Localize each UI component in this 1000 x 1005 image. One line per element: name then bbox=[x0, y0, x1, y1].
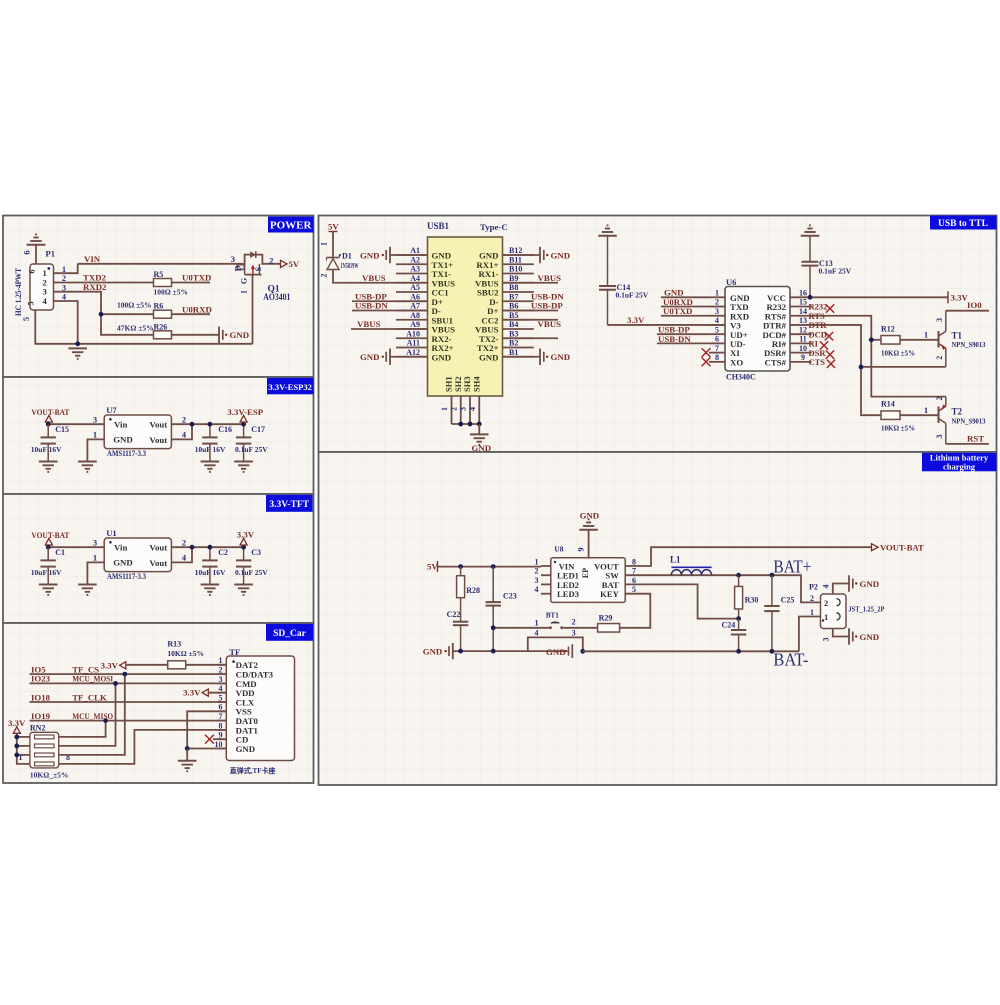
wire 3.3V to R13 bbox=[126, 664, 169, 666]
wire charger ground rail right bbox=[583, 650, 799, 652]
wire P2 pin4 to GND bbox=[833, 584, 849, 595]
net label IO0 bbox=[967, 300, 982, 310]
net label U0RXD bbox=[663, 297, 693, 307]
net label GND (U6) bbox=[664, 288, 684, 298]
svg-text:1: 1 bbox=[219, 656, 223, 665]
USB1 inside left pin names bbox=[432, 251, 456, 363]
svg-text:A1: A1 bbox=[410, 246, 420, 255]
svg-text:2: 2 bbox=[319, 274, 328, 278]
svg-text:S: S bbox=[254, 266, 263, 271]
resistor R29 bbox=[598, 624, 620, 633]
resistor R30 (vertical) bbox=[735, 575, 743, 618]
wire USB-DN (U6 pin6) bbox=[657, 342, 709, 344]
TF subtitle (chinese) bbox=[230, 766, 276, 775]
U7 pin 1 label bbox=[93, 430, 97, 440]
wire T2 collector to RST bbox=[946, 443, 989, 445]
wire input rail bbox=[48, 546, 87, 548]
U6 inside left pin names bbox=[730, 293, 750, 368]
svg-text:10KΩ_±5%: 10KΩ_±5% bbox=[30, 770, 68, 779]
wire charger ground rail bbox=[453, 650, 568, 652]
U7 pin 4 label bbox=[182, 430, 187, 440]
C2 value bbox=[195, 568, 226, 577]
svg-text:11: 11 bbox=[799, 335, 807, 344]
net label VBUS (B9) bbox=[538, 273, 562, 283]
junction dot MOSI riser bbox=[113, 681, 118, 686]
net label MCU_MISO bbox=[72, 711, 113, 721]
svg-text:HC 1.25-4PWT: HC 1.25-4PWT bbox=[13, 268, 23, 316]
svg-text:charging: charging bbox=[943, 462, 976, 472]
RN2 pin8 label bbox=[66, 753, 70, 762]
svg-text:R26: R26 bbox=[154, 322, 168, 331]
junction dot input bbox=[46, 545, 51, 550]
label USB to TTL bbox=[930, 216, 997, 230]
C16 value bbox=[195, 445, 226, 454]
svg-text:R6: R6 bbox=[154, 302, 164, 311]
svg-text:U1: U1 bbox=[106, 528, 116, 538]
regulator U1 body bbox=[104, 538, 171, 572]
svg-text:SD_Car: SD_Car bbox=[273, 629, 307, 639]
svg-text:GND: GND bbox=[113, 435, 133, 445]
svg-text:3: 3 bbox=[822, 638, 831, 642]
wire TXD2 (pin2 to R5) bbox=[54, 282, 154, 284]
junction dot C22 gnd bbox=[458, 649, 463, 654]
ground (earth, C16) bbox=[201, 462, 220, 472]
wire R12 input bbox=[871, 339, 881, 341]
junction dot C23 top bbox=[491, 564, 496, 569]
net label USB-DN (U6) bbox=[658, 334, 691, 344]
svg-text:B4: B4 bbox=[509, 320, 518, 329]
wire input rail bbox=[48, 423, 87, 425]
svg-text:3: 3 bbox=[93, 414, 97, 424]
net flag 3.3V (R13 pullup) bbox=[101, 660, 126, 670]
P1 refdes bbox=[46, 249, 55, 259]
net label BAT+ bbox=[773, 557, 811, 577]
wire BAT pin6 to R30/C24 bbox=[642, 584, 739, 618]
P1 pin1 dot bbox=[47, 267, 50, 270]
junction dots shield bus bbox=[458, 422, 481, 427]
svg-text:R5: R5 bbox=[154, 270, 164, 279]
C3 refdes bbox=[251, 548, 261, 557]
TF pin stubs bbox=[218, 665, 227, 749]
U8 left pin numbers bbox=[535, 557, 539, 594]
svg-text:VOUT-BAT: VOUT-BAT bbox=[31, 530, 69, 540]
ground (earth, C14 top) bbox=[598, 225, 617, 235]
svg-text:13: 13 bbox=[799, 316, 807, 325]
svg-text:GND: GND bbox=[432, 352, 452, 362]
transistor T1 (NPN S9013) bbox=[939, 311, 946, 367]
U1 pin 2 wire bbox=[171, 546, 243, 548]
svg-text:Vout: Vout bbox=[149, 558, 167, 568]
wire U0TXD (U6 pin3) bbox=[661, 315, 709, 317]
svg-text:LED3: LED3 bbox=[557, 589, 579, 599]
R30 refdes bbox=[745, 596, 759, 605]
svg-text:10KΩ ±5%: 10KΩ ±5% bbox=[881, 425, 915, 433]
C22 refdes bbox=[447, 610, 461, 619]
no-connect X (U6 XI) bbox=[702, 348, 711, 357]
svg-text:6: 6 bbox=[219, 703, 223, 712]
P2 pin4 label bbox=[822, 585, 831, 589]
svg-text:2: 2 bbox=[824, 598, 828, 608]
svg-text:GND: GND bbox=[546, 647, 566, 657]
svg-text:Vin: Vin bbox=[114, 419, 127, 429]
svg-text:C15: C15 bbox=[55, 425, 69, 434]
P2 refdes bbox=[809, 583, 818, 592]
panel 3.3V-ESP32 frame bbox=[3, 377, 314, 494]
ground (earth, C2) bbox=[201, 585, 220, 595]
wire IO19/MCU_MISO to pin7 bbox=[30, 720, 227, 722]
D1 refdes bbox=[339, 252, 352, 261]
capacitor C2 bbox=[202, 547, 217, 584]
no-connect X (TF pin9 CD) bbox=[205, 735, 226, 744]
svg-text:10KΩ ±5%: 10KΩ ±5% bbox=[167, 649, 204, 658]
ground (earth, U7 pin1) bbox=[78, 462, 97, 472]
svg-text:AMS1117-3.3: AMS1117-3.3 bbox=[107, 571, 146, 581]
svg-text:P2: P2 bbox=[809, 583, 818, 592]
svg-text:5: 5 bbox=[632, 585, 636, 594]
wire P1 pin6 to ground bbox=[35, 245, 37, 264]
T1 pin2 label bbox=[935, 356, 944, 360]
net label VBUS (A9) bbox=[357, 319, 381, 329]
svg-text:GND: GND bbox=[551, 250, 571, 260]
svg-text:B7: B7 bbox=[509, 292, 518, 301]
net flag VOUT-BAT (TFT section input) bbox=[31, 530, 69, 545]
svg-text:8: 8 bbox=[715, 353, 719, 362]
net label U0TXD bbox=[182, 273, 211, 283]
R12 value 10K bbox=[881, 349, 915, 357]
net flag 5V (Q1 out) bbox=[281, 259, 300, 269]
BT1 pin1 label bbox=[535, 618, 539, 627]
wire RN2 row2 to MCU_MOSI bbox=[59, 683, 116, 746]
C3 value bbox=[235, 568, 268, 577]
wire RN2 row1 to MCU_MISO bbox=[59, 721, 106, 737]
junction dot ground loop bbox=[580, 649, 585, 654]
resistor R28 (vertical) bbox=[457, 567, 465, 622]
junction dot C17 bbox=[241, 422, 246, 427]
BT1 pin3 label bbox=[572, 628, 576, 637]
net flag 3.3V (VDD pin4) bbox=[183, 688, 226, 698]
Q1 refdes bbox=[268, 285, 280, 295]
svg-text:8: 8 bbox=[219, 721, 223, 730]
TF inside pin names bbox=[232, 660, 273, 754]
wire GND pin10 bbox=[187, 748, 226, 750]
T2 pin1 label bbox=[924, 405, 928, 415]
wire 5V rail to U8 VIN bbox=[438, 566, 542, 568]
svg-text:C3: C3 bbox=[251, 548, 261, 557]
U1 pin 4 label bbox=[182, 553, 187, 563]
svg-text:3: 3 bbox=[459, 407, 468, 411]
junction dot C16 bbox=[208, 422, 213, 427]
capacitor C24 bbox=[731, 619, 746, 652]
D1 part 1N5819W bbox=[341, 262, 359, 270]
svg-text:3: 3 bbox=[231, 254, 235, 264]
net label GND (USB1 shield) bbox=[472, 443, 492, 453]
net label USB-DN (A7) bbox=[355, 301, 388, 311]
svg-text:GND: GND bbox=[423, 647, 443, 657]
wire R26 to GND flag bbox=[172, 334, 220, 336]
R28 refdes bbox=[466, 586, 480, 595]
junction dot VSS/GND bbox=[185, 746, 190, 751]
USB1 part Type-C bbox=[480, 222, 508, 232]
svg-text:4: 4 bbox=[219, 684, 223, 693]
svg-text:6: 6 bbox=[632, 576, 636, 585]
svg-text:100Ω ±5%: 100Ω ±5% bbox=[154, 288, 189, 297]
svg-text:1: 1 bbox=[924, 330, 928, 340]
svg-text:A5: A5 bbox=[410, 283, 420, 292]
GND net flag (charger middle) bbox=[546, 644, 572, 658]
C1 value bbox=[31, 568, 62, 577]
wire P1 pin4 down to ground rail bbox=[54, 301, 78, 344]
net flag 5V (charger) bbox=[427, 561, 438, 572]
svg-text:EP: EP bbox=[581, 568, 590, 578]
svg-text:U8: U8 bbox=[554, 545, 563, 554]
wire T1 emitter to DTR line bbox=[861, 366, 946, 368]
svg-text:A3: A3 bbox=[410, 265, 420, 274]
ground (earth, U1 pin1) bbox=[78, 585, 97, 595]
ground (earth, bottom rail) bbox=[68, 348, 87, 358]
junction dot C25 gnd bbox=[770, 649, 775, 654]
svg-text:3: 3 bbox=[93, 537, 97, 547]
svg-text:L1: L1 bbox=[670, 555, 681, 565]
label 3.3V-ESP32 bbox=[267, 378, 314, 395]
svg-text:1: 1 bbox=[440, 407, 449, 411]
svg-text:0.1uF 25V: 0.1uF 25V bbox=[235, 445, 268, 454]
svg-text:A2: A2 bbox=[410, 255, 420, 264]
connector P2 body bbox=[821, 594, 847, 629]
net label IO5 bbox=[31, 664, 46, 674]
svg-text:C17: C17 bbox=[251, 425, 265, 434]
svg-text:1: 1 bbox=[535, 557, 539, 566]
resistor R12 bbox=[881, 336, 900, 345]
svg-text:Vout: Vout bbox=[149, 435, 167, 445]
svg-text:1: 1 bbox=[240, 290, 249, 294]
RN2 pin1 label bbox=[19, 753, 23, 762]
svg-text:10: 10 bbox=[799, 344, 807, 353]
net label RI (crossed) bbox=[809, 339, 829, 350]
svg-text:VBUS: VBUS bbox=[362, 273, 386, 283]
svg-text:RXD2: RXD2 bbox=[83, 282, 107, 292]
wire P2 pin3 to GND bbox=[833, 629, 849, 637]
RN2 resistor elements bbox=[35, 735, 55, 766]
junction dot C2 bbox=[208, 545, 213, 550]
wire KEY to R29 bbox=[620, 594, 651, 628]
svg-text:3: 3 bbox=[219, 675, 223, 684]
RN2 value 10K bbox=[30, 770, 68, 779]
svg-text:U0RXD: U0RXD bbox=[182, 304, 212, 314]
net label CTS (crossed) bbox=[809, 357, 836, 368]
C23 refdes bbox=[503, 592, 517, 601]
svg-text:3.3V: 3.3V bbox=[627, 315, 645, 325]
resistor R5 bbox=[154, 279, 172, 287]
wire RN2 supply vertical bbox=[17, 733, 30, 764]
svg-text:100Ω ±5%: 100Ω ±5% bbox=[117, 300, 152, 309]
svg-text:3.3V-TFT: 3.3V-TFT bbox=[269, 500, 309, 510]
P1 inside pin names 6,1,2,3,4,5 bbox=[27, 268, 48, 306]
U1 part AMS1117-3.3 bbox=[107, 571, 146, 581]
R29 refdes bbox=[599, 613, 613, 622]
U1 pin 1 wire to ground bbox=[87, 562, 104, 584]
svg-text:Type-C: Type-C bbox=[480, 222, 508, 232]
net label IO23 bbox=[31, 674, 51, 684]
resistor R14 bbox=[881, 411, 900, 420]
net label VBUS (A4) bbox=[362, 273, 386, 283]
wire shield bus bbox=[452, 423, 480, 425]
svg-text:3: 3 bbox=[715, 307, 719, 316]
svg-text:2: 2 bbox=[182, 537, 186, 547]
resistor R13 bbox=[168, 661, 186, 669]
wire USB-DP (U6 pin5) bbox=[657, 333, 709, 335]
svg-text:POWER: POWER bbox=[270, 220, 313, 232]
panel Lithium frame bbox=[319, 452, 997, 785]
svg-text:7: 7 bbox=[219, 712, 223, 721]
GND net flag (R26) bbox=[219, 327, 249, 343]
svg-text:T2: T2 bbox=[952, 407, 963, 417]
T1 pin1 label bbox=[924, 330, 928, 340]
wire USB-DP (B6) bbox=[503, 319, 559, 321]
junction dot input bbox=[46, 422, 51, 427]
U1 refdes bbox=[106, 528, 116, 538]
C14 value bbox=[616, 291, 649, 300]
svg-text:5V: 5V bbox=[427, 562, 438, 572]
svg-text:3.3V: 3.3V bbox=[951, 292, 969, 302]
C14 refdes bbox=[617, 283, 631, 292]
RN2 refdes bbox=[30, 723, 46, 732]
svg-text:47KΩ ±5%: 47KΩ ±5% bbox=[117, 323, 154, 332]
connector P1 body bbox=[30, 264, 54, 310]
net label BAT- bbox=[773, 650, 808, 670]
svg-text:BT1: BT1 bbox=[546, 611, 559, 619]
U1 pin 3 label bbox=[93, 537, 97, 547]
wire down to ground (TF) bbox=[186, 749, 188, 761]
U7 pin names bbox=[109, 418, 167, 445]
net flag VOUT-BAT (charger) bbox=[872, 543, 925, 553]
switch BT1 bbox=[546, 611, 563, 629]
USB1 SH pin names bbox=[444, 376, 482, 392]
svg-text:T1: T1 bbox=[952, 331, 963, 341]
net label DCD (crossed) bbox=[809, 329, 834, 340]
svg-text:3: 3 bbox=[535, 576, 539, 585]
T2 pin3 label bbox=[935, 435, 944, 439]
net flag 3.3V (VCC) bbox=[948, 291, 968, 303]
svg-text:12: 12 bbox=[799, 325, 807, 334]
wire R6 branch bbox=[101, 313, 154, 315]
capacitor C1 bbox=[41, 547, 56, 584]
net flag 3.3V (TFT) bbox=[237, 530, 255, 545]
svg-text:1: 1 bbox=[824, 612, 828, 622]
svg-text:USB-DN: USB-DN bbox=[658, 334, 691, 344]
svg-text:GND: GND bbox=[860, 632, 880, 642]
svg-text:AMS1117-3.3: AMS1117-3.3 bbox=[107, 448, 146, 458]
U6 inside right pin names bbox=[763, 293, 787, 368]
TF pin numbers bbox=[215, 656, 223, 749]
svg-text:RN2: RN2 bbox=[30, 723, 46, 732]
svg-text:A7: A7 bbox=[410, 302, 420, 311]
R6 refdes bbox=[154, 302, 164, 311]
C17 value bbox=[235, 445, 268, 454]
svg-text:A10: A10 bbox=[406, 329, 420, 338]
T2 refdes bbox=[952, 407, 963, 417]
svg-text:B5: B5 bbox=[509, 311, 518, 320]
wire L1 to P2 pin2 bbox=[712, 575, 821, 602]
svg-text:B10: B10 bbox=[509, 265, 522, 274]
connector USB1 Type-C body bbox=[428, 237, 503, 396]
wire VBUS (B9) bbox=[503, 282, 559, 284]
wire shield to ground bbox=[478, 424, 480, 434]
Q1 pin 2 label bbox=[269, 255, 273, 265]
svg-text:1: 1 bbox=[93, 430, 97, 440]
U7 pin 3 label bbox=[93, 414, 97, 424]
U8 left pin stubs bbox=[541, 566, 551, 594]
net label RXD2 bbox=[83, 282, 107, 292]
svg-text:5: 5 bbox=[715, 325, 719, 334]
junction dot pin4/pin2 bbox=[190, 545, 195, 550]
U8 pin9 label bbox=[577, 548, 586, 552]
wire RN2 row1 left bbox=[17, 736, 30, 738]
GND net flag (A12) bbox=[360, 349, 428, 365]
GND net flag (P2 pin3) bbox=[849, 628, 879, 644]
P2 inside pin names bbox=[822, 598, 840, 622]
net label IO18 bbox=[31, 692, 51, 702]
svg-text:2: 2 bbox=[449, 407, 458, 411]
junction dot C3 bbox=[241, 545, 246, 550]
C17 refdes bbox=[251, 425, 265, 434]
junction dot C23 gnd bbox=[491, 649, 496, 654]
net label RST bbox=[967, 433, 984, 443]
R13 value 10K bbox=[167, 649, 204, 658]
svg-text:7: 7 bbox=[715, 344, 719, 353]
panel USB-to-TTL frame bbox=[319, 216, 997, 453]
svg-text:3.3V-ESP: 3.3V-ESP bbox=[227, 407, 263, 417]
svg-text:B6: B6 bbox=[509, 302, 518, 311]
wire RN2 row3 to TF_CS bbox=[59, 674, 125, 755]
svg-text:5V: 5V bbox=[289, 259, 300, 269]
U6 left pin stubs bbox=[709, 297, 725, 362]
svg-text:VOUT-BAT: VOUT-BAT bbox=[880, 543, 924, 553]
svg-text:5: 5 bbox=[27, 302, 36, 306]
net label U0RXD bbox=[182, 304, 212, 314]
label 3.3V-TFT bbox=[266, 495, 313, 512]
ground (earth, C17) bbox=[234, 462, 253, 472]
transistor T2 (NPN S9013) bbox=[939, 397, 946, 444]
capacitor C25 bbox=[764, 575, 779, 651]
svg-text:VIN: VIN bbox=[84, 254, 101, 264]
svg-text:U6: U6 bbox=[726, 277, 736, 287]
D1 pin1 label bbox=[319, 242, 328, 246]
svg-text:9: 9 bbox=[577, 548, 586, 552]
svg-text:1: 1 bbox=[924, 405, 928, 415]
junction dot R30/C24 bbox=[736, 616, 741, 621]
ground (earth, top of P1) bbox=[27, 234, 46, 244]
svg-text:XO: XO bbox=[730, 357, 743, 367]
svg-text:Vout: Vout bbox=[149, 419, 167, 429]
junction dot ground rail bbox=[75, 341, 80, 346]
svg-text:6: 6 bbox=[28, 270, 37, 274]
svg-text:USB-DN: USB-DN bbox=[355, 301, 388, 311]
wire IO5/TF_CS to pin2 bbox=[30, 673, 227, 675]
U8 right pin numbers bbox=[632, 557, 636, 594]
wire IO18/TF_CLK to pin5 bbox=[30, 701, 227, 703]
svg-text:GND: GND bbox=[479, 352, 499, 362]
capacitor C22 bbox=[453, 622, 468, 651]
U1 pin 2 label bbox=[182, 537, 186, 547]
svg-text:2: 2 bbox=[715, 298, 719, 307]
svg-text:2: 2 bbox=[935, 356, 944, 360]
wire BT1 pin1 to C23 column bbox=[493, 627, 549, 629]
USB1 left pin numbers A1-A12 bbox=[406, 246, 420, 357]
wire USB-DN (A7) bbox=[352, 310, 428, 312]
wire Q1 gate down to rail bbox=[252, 275, 254, 344]
svg-text:5: 5 bbox=[21, 317, 31, 321]
svg-text:3: 3 bbox=[935, 318, 944, 322]
